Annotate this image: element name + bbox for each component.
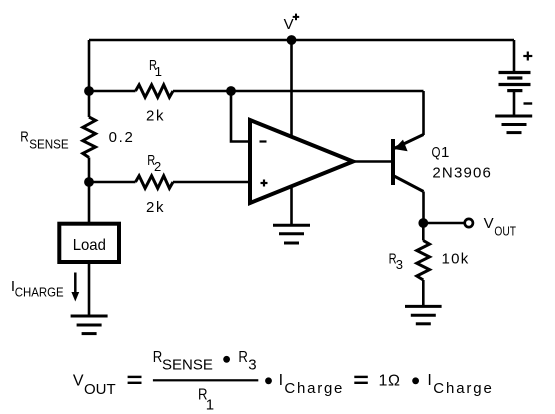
node Vout junction bbox=[418, 218, 428, 228]
svg-text:CHARGE: CHARGE bbox=[15, 284, 64, 299]
formula Vout term bbox=[73, 372, 116, 398]
svg-text:I: I bbox=[427, 372, 431, 389]
svg-text:Charge: Charge bbox=[433, 380, 492, 397]
svg-text:SENSE: SENSE bbox=[162, 357, 213, 374]
svg-text:OUT: OUT bbox=[494, 224, 516, 239]
wire op-amp ground bbox=[290, 186, 293, 225]
R_SENSE label bbox=[20, 129, 69, 152]
node V+ junction bbox=[287, 35, 297, 45]
transistor Q1 bbox=[393, 135, 424, 192]
Q1 label bbox=[432, 144, 450, 161]
svg-text:2k: 2k bbox=[146, 199, 165, 216]
op-amp U1 bbox=[250, 120, 353, 203]
R3 label bbox=[389, 250, 403, 272]
label V+ bbox=[284, 14, 300, 33]
wire feedback vertical to emitter bbox=[422, 91, 425, 135]
resistor R_SENSE bbox=[83, 117, 96, 158]
load box bbox=[59, 224, 119, 262]
ground op-amp bbox=[273, 225, 310, 243]
wire R1 left bbox=[89, 90, 136, 93]
terminal Vout bbox=[465, 219, 473, 227]
op-amp inverting input minus sign bbox=[260, 140, 267, 142]
svg-text:Ω: Ω bbox=[388, 372, 400, 389]
formula numerator R_SENSE dot R3 bbox=[153, 349, 257, 374]
formula first equals bbox=[128, 376, 142, 384]
op-amp non-inverting input plus sign bbox=[261, 180, 268, 187]
node R1 right junction bbox=[226, 86, 236, 96]
formula fraction bar bbox=[153, 379, 258, 381]
node R1 left junction bbox=[84, 86, 94, 96]
svg-text:3: 3 bbox=[396, 257, 403, 272]
svg-text:OUT: OUT bbox=[84, 381, 116, 398]
ground battery bbox=[495, 116, 532, 133]
battery B1 bbox=[499, 73, 531, 116]
formula dot ICharge bbox=[265, 372, 342, 397]
wire top rail bbox=[89, 39, 514, 42]
svg-text:I: I bbox=[279, 372, 283, 389]
svg-text:V: V bbox=[73, 372, 84, 389]
resistor R2 bbox=[136, 176, 174, 189]
svg-text:2N3906: 2N3906 bbox=[432, 164, 491, 181]
svg-text:V: V bbox=[284, 16, 294, 33]
formula 1 ohm dot ICharge bbox=[379, 372, 492, 397]
resistor R3 bbox=[417, 241, 430, 281]
R2 label bbox=[147, 152, 161, 174]
wire R3 to ground bbox=[422, 280, 425, 306]
wire inverting input bbox=[231, 91, 250, 142]
svg-text:1: 1 bbox=[155, 64, 162, 79]
resistor R1 bbox=[136, 85, 174, 98]
svg-text:R: R bbox=[238, 349, 248, 366]
battery minus label bbox=[524, 102, 533, 104]
wire load to ground bbox=[88, 264, 91, 316]
svg-text:Charge: Charge bbox=[284, 380, 342, 397]
battery plus label bbox=[523, 52, 532, 61]
wire R1 right bbox=[173, 90, 231, 93]
formula second equals bbox=[354, 376, 368, 384]
ground R3 bbox=[405, 306, 442, 323]
svg-text:R: R bbox=[153, 349, 163, 366]
wire node to R3 bbox=[422, 223, 425, 241]
svg-text:1: 1 bbox=[379, 372, 388, 389]
label I_CHARGE bbox=[11, 278, 64, 300]
svg-text:Load: Load bbox=[73, 237, 106, 254]
wire left vertical lower bbox=[88, 158, 91, 225]
svg-text:10k: 10k bbox=[442, 250, 470, 267]
svg-text:SENSE: SENSE bbox=[29, 137, 69, 152]
svg-text:1: 1 bbox=[441, 144, 449, 161]
ground load bbox=[71, 316, 108, 334]
wire collector to node bbox=[422, 192, 425, 224]
arrow I_CHARGE bbox=[71, 273, 79, 302]
wire V+ to op-amp top bbox=[290, 40, 293, 138]
svg-text:V: V bbox=[484, 215, 494, 232]
formula denominator R1 bbox=[198, 387, 214, 414]
svg-text:3: 3 bbox=[248, 357, 256, 374]
svg-text:R: R bbox=[20, 129, 29, 146]
svg-text:2: 2 bbox=[154, 159, 161, 174]
wire feedback horizontal bbox=[231, 90, 424, 93]
wire battery drop bbox=[513, 40, 516, 73]
wire R2 right bbox=[173, 181, 250, 184]
label Vout bbox=[484, 215, 516, 239]
R1 label bbox=[149, 57, 162, 79]
svg-text:2k: 2k bbox=[146, 108, 165, 125]
svg-text:Q: Q bbox=[432, 144, 441, 161]
svg-text:0.2: 0.2 bbox=[109, 129, 133, 146]
wire left vertical upper bbox=[88, 40, 91, 117]
wire op-amp output to base bbox=[353, 160, 392, 163]
svg-text:1: 1 bbox=[206, 396, 214, 413]
wire Vout stub bbox=[424, 222, 465, 225]
node R2 left junction bbox=[84, 177, 94, 187]
wire R2 left bbox=[89, 181, 136, 184]
